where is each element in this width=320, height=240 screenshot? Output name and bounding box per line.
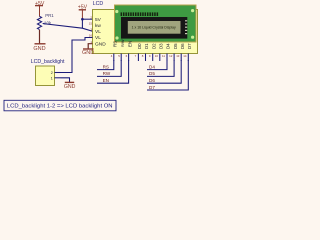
svg-text:11: 11 [162, 54, 165, 58]
wire + net label EN [97, 60, 129, 83]
svg-text:GND: GND [64, 84, 76, 90]
svg-text:D2: D2 [151, 43, 156, 49]
svg-text:D6: D6 [180, 43, 185, 49]
resistor PR1 (potentiometer) [37, 13, 54, 29]
svg-text:15: 15 [89, 22, 93, 26]
display panel [128, 21, 181, 34]
top pad row [121, 12, 159, 16]
svg-text:LCD_backlight 1-2 => LCD backl: LCD_backlight 1-2 => LCD backlight ON [7, 104, 113, 110]
svg-text:R/W: R/W [120, 39, 125, 47]
svg-text:RW: RW [103, 71, 111, 76]
svg-text:12: 12 [169, 54, 173, 58]
svg-text:1: 1 [51, 76, 53, 80]
wire: backlight pin1 to ground [61, 78, 70, 82]
svg-text:D0: D0 [137, 43, 142, 49]
ground (LCD GND pin, below box) [82, 44, 94, 56]
svg-text:D3: D3 [159, 43, 164, 49]
svg-text:D6: D6 [149, 78, 155, 83]
svg-text:RS: RS [113, 41, 118, 47]
LCD component box U1 [93, 1, 198, 53]
svg-text:LCD: LCD [93, 1, 104, 7]
svg-text:VL: VL [95, 35, 101, 41]
ground (backlight) [64, 82, 76, 90]
wire: junction down to wiper net [81, 19, 83, 28]
LCD pin names (left side) [95, 17, 106, 48]
svg-text:PR1: PR1 [45, 13, 54, 18]
svg-text:GND: GND [33, 46, 45, 52]
wire + net label RS [97, 60, 114, 70]
svg-text:D5: D5 [149, 71, 155, 76]
power +5V (second, LCD VDD) [78, 5, 88, 20]
wire + net label D4 [147, 60, 167, 70]
svg-text:14: 14 [183, 54, 187, 58]
wire + net label D5 [147, 60, 174, 76]
svg-text:1 x 16 Liquid Crystal Display: 1 x 16 Liquid Crystal Display [132, 26, 176, 30]
svg-text:GND: GND [82, 50, 94, 56]
svg-text:D5: D5 [173, 43, 178, 49]
wire + net label D6 [147, 60, 181, 83]
wire: pot wiper to LCD pin VL [43, 24, 92, 32]
LCD bottom pin numbers [111, 54, 187, 58]
svg-text:EN: EN [127, 41, 132, 47]
wire + net label RW [97, 60, 121, 76]
power +5V (left, pot top) [35, 1, 45, 17]
wire: +5V to LCD 5V pin [82, 18, 92, 20]
svg-text:D4: D4 [166, 43, 171, 49]
pin stubs backlight [55, 72, 61, 74]
svg-text:D4: D4 [149, 64, 155, 69]
svg-text:LCD_backlight: LCD_backlight [31, 59, 65, 65]
svg-text:5V: 5V [95, 17, 102, 23]
svg-text:EN: EN [103, 78, 109, 83]
LCD bottom pin names (rotated) [113, 39, 193, 49]
svg-text:10: 10 [155, 54, 159, 58]
svg-text:D7: D7 [149, 85, 155, 90]
LCD_backlight jumper box [31, 59, 65, 86]
svg-text:2: 2 [51, 71, 53, 75]
LCD bottom pin stubs [114, 54, 189, 62]
screen bezel [121, 17, 187, 39]
ground (pot bottom) [33, 30, 45, 52]
svg-text:D7: D7 [187, 43, 192, 49]
wire: backlight pin2 to LCD pin 16 [61, 38, 93, 73]
svg-text:GND: GND [95, 41, 106, 47]
junction [81, 18, 84, 21]
right pad column (light dashes inside bezel edge) [185, 20, 187, 34]
LCD pin numbers (left side) [89, 15, 93, 44]
note text box [4, 100, 116, 111]
LCD graphic: green board [115, 5, 197, 42]
wire + net label D7 [147, 60, 188, 90]
svg-text:13: 13 [176, 54, 180, 58]
mounting hole dots [115, 10, 118, 13]
svg-text:D1: D1 [144, 43, 149, 49]
svg-text:VL: VL [95, 29, 101, 35]
svg-text:kw: kw [95, 23, 101, 29]
svg-text:RS: RS [103, 64, 109, 69]
